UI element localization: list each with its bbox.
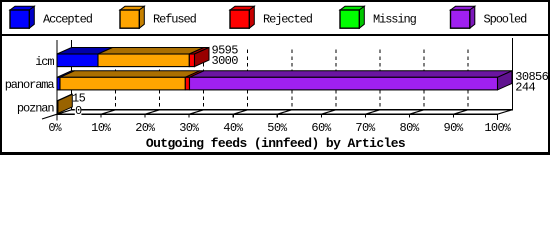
svg-text:244: 244 [515,80,535,94]
svg-text:70%: 70% [355,121,375,135]
svg-text:30%: 30% [179,121,199,135]
bar poznan [57,94,72,113]
bar panorama [57,71,512,90]
svg-text:0%: 0% [48,121,62,135]
svg-text:50%: 50% [267,121,287,135]
svg-text:100%: 100% [484,121,511,135]
svg-text:80%: 80% [400,121,420,135]
legend cube Missing [340,6,364,28]
legend cube Rejected [230,6,254,28]
svg-text:60%: 60% [311,121,331,135]
svg-text:90%: 90% [444,121,464,135]
svg-text:icm: icm [35,55,54,69]
svg-text:Spooled: Spooled [484,13,528,27]
svg-text:Missing: Missing [373,13,417,27]
svg-text:10%: 10% [91,121,111,135]
svg-text:Rejected: Rejected [263,13,313,27]
legend cube Refused [120,6,144,28]
svg-text:20%: 20% [135,121,155,135]
svg-text:Accepted: Accepted [43,13,93,27]
svg-text:panorama: panorama [5,78,55,92]
svg-text:3000: 3000 [212,54,239,68]
feed name labels [5,55,55,116]
vertical gridlines [72,38,513,110]
legend cube Accepted [10,6,34,28]
svg-text:0: 0 [75,104,82,118]
x axis tick marks [42,110,512,120]
x axis percent labels [48,121,511,135]
svg-text:Refused: Refused [153,13,197,27]
bar icm [57,48,209,67]
legend cube Spooled [451,6,475,28]
svg-text:poznan: poznan [17,101,55,115]
svg-text:Outgoing feeds (innfeed) by Ar: Outgoing feeds (innfeed) by Articles [146,136,406,151]
outer frame border [0,0,550,155]
x axis base lines [57,40,513,120]
svg-text:40%: 40% [223,121,243,135]
value labels [75,104,82,115]
